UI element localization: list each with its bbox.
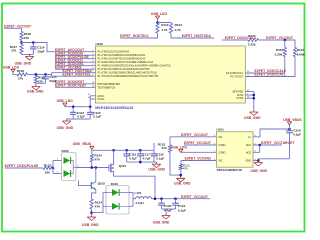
Q101 reference designator [119,164,127,168]
svg-text:USB_GND: USB_GND [251,169,268,173]
net label EZFET_HOSTSCL [120,34,149,38]
svg-text:EZFET_VCCTARGET: EZFET_VCCTARGET [261,141,295,145]
svg-text:USB_VBUS: USB_VBUS [283,118,302,122]
R114 value 9.09k [297,52,305,56]
wire D102 anode 2 stub [53,173,62,175]
net label EZFET_DCDCCAL1 (top) [225,36,256,40]
junction R122 out [52,167,55,170]
svg-text:EZFET_VCCOUT: EZFET_VCCOUT [181,133,209,137]
svg-text:27k: 27k [24,36,29,40]
capacitor C117 [137,150,144,162]
U102 pin name P2.7/XOUT [231,76,244,79]
USB_GND label under U102 [244,116,261,120]
R116 designator [24,32,32,36]
USB_GND label output caps [153,220,170,224]
svg-text:USB_VBUS: USB_VBUS [73,142,92,146]
net label EZFET_DCDCSEL [55,62,84,66]
C118 value 0.1uF [156,156,164,160]
power tap USB_LDO pullups [155,16,159,19]
svg-text:IN2: IN2 [218,160,223,163]
resistor R118 [17,73,28,76]
junction cap bottoms [139,161,142,164]
C120 value 4.7uF [164,208,172,212]
C117 value 4.7uF [143,156,151,160]
svg-text:EZFET_HOSTSDA: EZFET_HOSTSDA [182,34,212,38]
D102 reference designator [62,149,70,153]
C113 value 0.1uF [93,114,101,118]
resistor R114 [293,48,296,57]
wire R113 to EZFET_HOSTSDA [171,33,214,38]
U102 pin name RST/NMI/SBWTDIO [98,83,121,86]
svg-text:EZFET_VCCOUT: EZFET_VCCOUT [181,195,209,199]
R118 designator [17,69,25,73]
svg-text:R112: R112 [161,23,169,27]
wire EZFET_VCCOUT to U101 IN1 [170,136,216,138]
junction gate node at R120 [91,166,94,169]
wire R123 top lead [169,137,171,145]
U101 right pin numbers [254,135,256,161]
svg-text:EZFET_HOSTSCL: EZFET_HOSTSCL [63,72,92,76]
C115 designator [49,75,57,79]
svg-text:4.7µF: 4.7µF [143,156,151,160]
inductor L101 [136,197,152,199]
wire R120 bottom to gate node [91,162,93,168]
Q102 reference designator [98,182,106,186]
junction C114 top [32,41,35,44]
L101 value 4.7uH [135,201,144,205]
wire LDO tap to pullup tops [157,19,159,23]
svg-text:NO1: NO1 [246,144,252,147]
wire R124 to ground [91,209,93,215]
C119 designator [293,129,301,133]
svg-text:47k: 47k [183,166,188,170]
R123 designator [158,142,166,146]
svg-text:COM2: COM2 [218,151,226,154]
wire row6 EZFET_VCCEN2 to U102 [55,68,96,70]
R120 value 470 [94,158,99,162]
svg-text:33pF: 33pF [37,50,44,54]
svg-text:D102: D102 [62,149,70,153]
C118 designator [156,152,164,156]
wire R123 to shared ground node [170,152,181,175]
wire D102 cathode to gate node [76,167,109,169]
svg-text:USB_GND: USB_GND [57,126,74,130]
svg-text:TEST/SBWTCK: TEST/SBWTCK [98,86,116,89]
junction output at C121 [174,197,177,200]
wire L101 to EZFET_VCCOUT [152,198,211,200]
U102 left pin numbers 1-8 [92,50,94,77]
C116 value 4.7uF [129,156,137,160]
net label EZFET_DCDCTEST [55,84,87,88]
Q102 emitter segment [91,187,96,190]
R112 designator [161,23,169,27]
svg-text:EZFET_HOSTSCL: EZFET_HOSTSCL [120,34,149,38]
wire row2 EZFET_DCDCIO0 to U102 [55,54,96,56]
USB_GND label under R124 [82,223,99,227]
wire VBUS tap stem at U101 [289,125,291,129]
ground symbol under R119 [32,85,41,91]
R118 value 27k [18,76,23,80]
P2.6 P2.7 pin numbers [247,71,250,77]
net label EZFET_DCDCCAL1 (pin) [255,73,286,77]
R114 designator [297,48,305,52]
R120 designator [94,154,102,158]
wire R112 to EZFET_HOSTSCL [120,33,157,38]
C112 value 4.7uF [77,114,85,118]
svg-text:4.7k: 4.7k [175,28,181,32]
R112 value 4.7k [161,28,167,32]
wire D102 to Q102 base [79,181,92,186]
net label EZFET_DCDCIO1 [55,58,83,62]
diode D102-B [64,170,71,177]
C115 value 33pF [49,79,56,83]
wire row8 EZFET_HOSTSCL to U102 [52,75,96,77]
R121 designator [183,163,190,167]
junction R113 top at VCCOUT [284,39,287,42]
svg-text:GND: GND [245,160,251,163]
junction gate node at Q102 collector [95,166,98,169]
svg-text:USB_GND: USB_GND [174,182,191,186]
C114 designator [37,45,45,49]
svg-text:L101: L101 [135,191,142,195]
svg-text:USB_GND: USB_GND [244,116,261,120]
wire pullup top node to R113 [158,22,172,25]
resistor R122 [43,166,53,169]
svg-text:USB_LDO: USB_LDO [57,99,74,103]
U102 pin name QFN PAD [232,91,243,94]
R113 pullup designator [175,23,183,27]
resistor R124 [90,199,93,209]
junction shared ground node [179,174,182,177]
wire D102 anode 1 stub [53,160,62,162]
capacitor C115 [42,74,49,83]
junction C112 top [72,105,75,108]
C121 value 0.1uF [178,208,186,212]
transistor Q101 gate bar [108,165,110,172]
wire U101 NO2 jog to NO1 [253,145,260,152]
ground symbol under R117 [25,54,34,60]
wire EZFET_DCDCRST to U102 [55,83,96,85]
USB_GND label U101 [251,169,268,173]
junction GND pin node [257,159,260,162]
svg-text:R118: R118 [17,69,25,73]
net label EZFET_VCCEN2 [185,157,211,161]
wire DVCC pin stub [90,98,95,100]
junction node AVCCOUT at R116/R117 [20,41,23,44]
resistor R117 [20,45,23,54]
svg-text:R113: R113 [276,48,284,52]
net label EZFET_VCCOUT (IN1) [181,133,209,137]
svg-text:COM1: COM1 [218,144,226,147]
U102 TEST pin number 15 [92,86,95,88]
Q102 emitter arrow [93,187,96,190]
resistor R120 [90,154,93,162]
resistor R113 pullup [169,23,172,33]
svg-text:U102: U102 [96,42,104,46]
C119 value 0.1uF [293,133,301,137]
resistor R119 [34,75,37,83]
svg-text:TS5A21366DCUR: TS5A21366DCUR [216,168,242,172]
Q101 source lead [111,150,114,165]
junction divider node at C115 [44,73,47,76]
wire R114 to EZFET_DCDCCAL1 pin [245,57,295,77]
wire LDO tap stem [64,105,66,108]
svg-text:U101: U101 [216,128,224,132]
svg-text:47k: 47k [162,146,167,150]
U101 right pin names [245,136,251,163]
net label EZFET_VCCEN2 [55,65,81,69]
ground symbol under R124 [87,215,96,221]
ground symbol VBUS caps [152,162,161,168]
U101 part number [216,168,242,172]
svg-text:4.7µF: 4.7µF [77,114,85,118]
wire to ground under R119 [35,83,37,84]
resistor R123 [168,145,171,153]
junction rail C117 [139,149,142,152]
Q102 collector segment [91,182,96,185]
junction output at C120 [160,197,163,200]
C117 designator [143,152,151,156]
wire row4 EZFET_DCDCIO1 to U102 [55,61,96,63]
wire DVSS stub [245,97,254,99]
wire AVSS stub [245,94,254,96]
diode D102-A [64,157,71,164]
wire Q102 emitter to R124 [92,190,96,199]
R124 value 470 [95,204,100,208]
power label USB_LDO (left divider) [3,65,20,69]
svg-text:R115: R115 [248,34,256,38]
wire R113 to EZFET_DCDCCAL0 pin [245,57,284,74]
net label EZFET_VCCOUT (sense divider input) [4,25,32,29]
svg-text:820: 820 [45,170,50,174]
svg-text:15: 15 [88,94,91,96]
resistor R113 cal [283,48,286,57]
ground symbol under U102 [250,110,259,116]
transistor Q101 arrow [111,167,113,169]
power label USB_LDO (U102 supply) [57,99,74,103]
svg-text:DVSS: DVSS [236,97,243,100]
wire D102 anode join [52,161,54,174]
wire row3 EZFET_DCDCPULSE to U102 [55,58,96,60]
C120 designator [164,204,172,208]
R122 value 820 [45,170,50,174]
R116 value 27k [24,36,29,40]
net label EZFET_HOSTSDA [182,34,212,38]
svg-text:0.1µF: 0.1µF [178,208,186,212]
svg-text:470: 470 [94,158,99,162]
net label EZFET_DCDCPULSE [5,164,39,168]
wire R119/C115 bottoms joined [36,82,46,84]
wire D103 cathodes join [132,193,134,207]
wire USB_LDO rail to caps [65,106,90,108]
wire rail right stub up [153,143,155,150]
wire U101 V+ to USB_VBUS [253,129,290,137]
USB_GND label shared ground [174,182,191,186]
junction DVSS [253,97,256,100]
net label EZFET_HOSTSDA [63,69,93,73]
net label EZFET_VCCOUT (output) [181,195,209,199]
svg-text:USB_GND: USB_GND [153,220,170,224]
ground symbol output caps [162,214,171,220]
junction rail Q101 source [112,149,115,152]
wire EZFET_VCCOUT to U101 COM1 [184,144,216,146]
U101 reference designator [216,128,224,132]
capacitor C113 [87,107,94,119]
svg-text:4.7k: 4.7k [161,28,167,32]
R117 designator [10,45,18,49]
R120 top lead [91,150,93,154]
U102 pin name AVSS [237,94,244,97]
wire R118 to divider node [28,73,52,75]
U102 pin name DVCC [98,98,105,101]
net label EZFET_VCCOUT (cal) [266,36,294,40]
op-amp U102 body (MSP430G2452 DCDC MCU) [96,46,246,103]
ground symbol shared R121/R123 [176,176,185,182]
wire AVCC pin stub [90,95,95,97]
wire R121 top lead [180,161,182,165]
ground symbol under C112/C113 [62,119,71,125]
wire EZFET_DCDCPULSE to R122 [5,167,43,169]
power label USB_VBUS (rail) [73,142,92,146]
net label EZFET_DCDCRST [55,80,85,84]
svg-text:DVCC: DVCC [98,98,105,101]
svg-text:EZFET_VCCOUT: EZFET_VCCOUT [184,141,212,145]
L101 reference designator [135,191,142,195]
USB_GND label under R119 [27,90,44,94]
U102 pin name TEST/SBWTCK [98,86,116,89]
R121 value 47k [183,166,188,170]
dual diode D102 body [62,153,77,181]
wire CAL1 to R115 [222,39,248,41]
svg-text:V+: V+ [248,136,252,139]
transistor Q101 channel bar [110,164,112,173]
svg-text:4.7µF: 4.7µF [129,156,137,160]
svg-text:EZFET_VCCOUT: EZFET_VCCOUT [266,36,294,40]
resistor R115 [248,38,259,41]
resistor R121 [179,164,182,170]
wire VBUS cap bottoms [127,161,157,163]
svg-text:USB_GND: USB_GND [82,223,99,227]
capacitor C120 [158,199,165,209]
svg-text:USB_GND: USB_GND [148,167,165,171]
R122 designator [44,164,52,168]
USB_GND label under C112 [57,126,74,130]
C113 designator [93,111,101,115]
net label EZFET_HOSTSCL [63,72,92,76]
wire LDO tap to R118 [13,72,17,74]
svg-text:EZFET_DCDCTEST: EZFET_DCDCTEST [55,84,87,88]
net label EZFET_DCDCCAL0 [255,69,286,73]
U102 pin name AVCC [98,95,105,98]
D103 internal wiring [106,193,129,207]
net label EZFET_DCDCPULSE [55,55,89,59]
wire D103 to L101 [133,198,136,200]
R113 cal value 2.20k [275,52,283,56]
wire R117/C114 bottoms to ground [22,53,34,54]
AVCC DVCC pin numbers [88,94,91,99]
C116 designator [129,152,137,156]
analog switch U101 body (TS5A21366) [216,132,253,167]
wire output cap bottoms [162,208,176,210]
wire QFN PAD stub [245,91,254,93]
svg-text:Q102: Q102 [98,182,106,186]
svg-text:EZFET_VCCEN2: EZFET_VCCEN2 [185,157,211,161]
wire VBUS tap stem [91,149,93,150]
wire LDO tap to COM2 [181,151,217,153]
wire row7 EZFET_HOSTSDA to U102 [52,72,96,74]
net label EZFET_VCCOUT (COM1) [184,141,212,145]
wire R116 to node AVCCOUT [21,41,23,45]
svg-text:9.09k: 9.09k [297,52,305,56]
QFN/AVSS/DVSS pin numbers [247,90,250,99]
U102 port1 pin names [98,51,172,78]
R115 value 3.32k [248,42,256,46]
svg-text:EZFET_DCDCCAL1: EZFET_DCDCCAL1 [255,73,286,77]
wire D103 anode 1 stub [103,192,106,194]
USB_GND label VBUS caps [148,167,165,171]
junction V+ node at C119 [288,128,291,131]
C114 value 33pF [37,50,44,54]
power tap USB_LDO at U101 [179,149,183,152]
power tap USB_LDO at U102 [63,103,67,106]
wire node AVCCOUT to IC pin row 1 [22,43,96,52]
wire D103 cathode stub 2 [129,205,133,207]
ground symbol under U101 GND [254,161,263,167]
svg-text:D103: D103 [111,182,119,186]
wire ground pins join [253,92,255,111]
wire U101 NO1 to EZFET_VCCTARGET [253,144,282,146]
D102 cathode pin number [77,166,79,168]
junction NO1/NO2 [258,144,261,147]
R113 pullup value 4.7k [175,28,181,32]
R115 designator [248,34,256,38]
svg-text:P2.7/XOUT: P2.7/XOUT [231,76,244,79]
junction divider node at R119 [35,73,38,76]
svg-text:USB_LDO: USB_LDO [151,12,168,16]
svg-text:P1.7/CAOUT/UCB0SIMO/UCB0SDA/A7: P1.7/CAOUT/UCB0SIMO/UCB0SDA/A7/CA7/TDO/T… [98,75,159,78]
svg-text:R122: R122 [44,164,52,168]
capacitor C119 [286,129,293,159]
wire C119 return to GND pin [258,159,289,161]
power label USB_LDO (COM2) [171,146,188,150]
D102 pin numbers [57,159,59,174]
svg-text:R114: R114 [297,48,305,52]
capacitor C118 [151,150,158,162]
U102 RST pin number 16 [92,82,95,84]
power label USB_LDO (pullups) [151,12,168,16]
svg-text:NO2: NO2 [246,151,252,154]
junction C113 top [89,105,92,108]
svg-text:0.1µF: 0.1µF [93,114,101,118]
svg-text:USB_GND: USB_GND [27,90,44,94]
wire node to D103 anodes [92,193,104,213]
wire R115 to VCCOUT node [259,40,296,48]
R124 designator [95,200,103,204]
R119 value 27k [38,80,43,84]
U101 left pin names [218,136,226,163]
svg-text:0.1µF: 0.1µF [293,133,301,137]
wire EZFET_DCDCTEST to U102 [55,86,96,88]
USB_GND label under R117 [15,62,32,66]
net label EZFET_AVCCOUT row1 [55,48,85,52]
power label USB_VBUS (U101) [283,118,302,122]
wire caps to ground [165,209,167,214]
D103 reference designator [111,182,119,186]
wire decoupling cap bottoms [67,118,91,120]
C112 designator [77,111,85,115]
svg-text:4.7µH: 4.7µH [135,201,144,205]
D102 internal wiring [71,161,76,174]
